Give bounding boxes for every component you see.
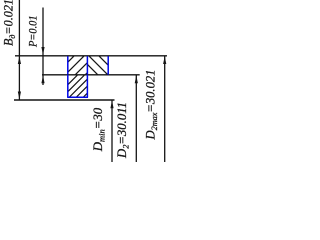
tolerance zone upper-left cell (blue box, hatch /) bbox=[52, 52, 108, 78]
wire top extension line (level 30.021) bbox=[15, 55, 167, 57]
dimension line D2max bbox=[164, 56, 166, 162]
wire middle extension line (level 30.011) bbox=[42, 74, 140, 76]
dimension line Dmin bbox=[111, 100, 113, 162]
svg-text:Р=0.01: Р=0.01 bbox=[25, 15, 39, 47]
svg-text:Вд=0.021: Вд=0.021 bbox=[2, 0, 18, 46]
svg-text:Dmin=30: Dmin=30 bbox=[91, 108, 107, 153]
dimension line P bbox=[42, 8, 44, 86]
dimension line Bд bbox=[18, 0, 20, 100]
tolerance zone lower cell (blue box, hatch /) bbox=[53, 72, 109, 100]
dimension line D2 bbox=[135, 75, 137, 162]
tolerance zone upper-right cell (blue box, hatch \) bbox=[65, 52, 121, 78]
svg-text:D2=30.011: D2=30.011 bbox=[115, 102, 131, 159]
wire bottom extension line (level 30) bbox=[14, 99, 115, 101]
